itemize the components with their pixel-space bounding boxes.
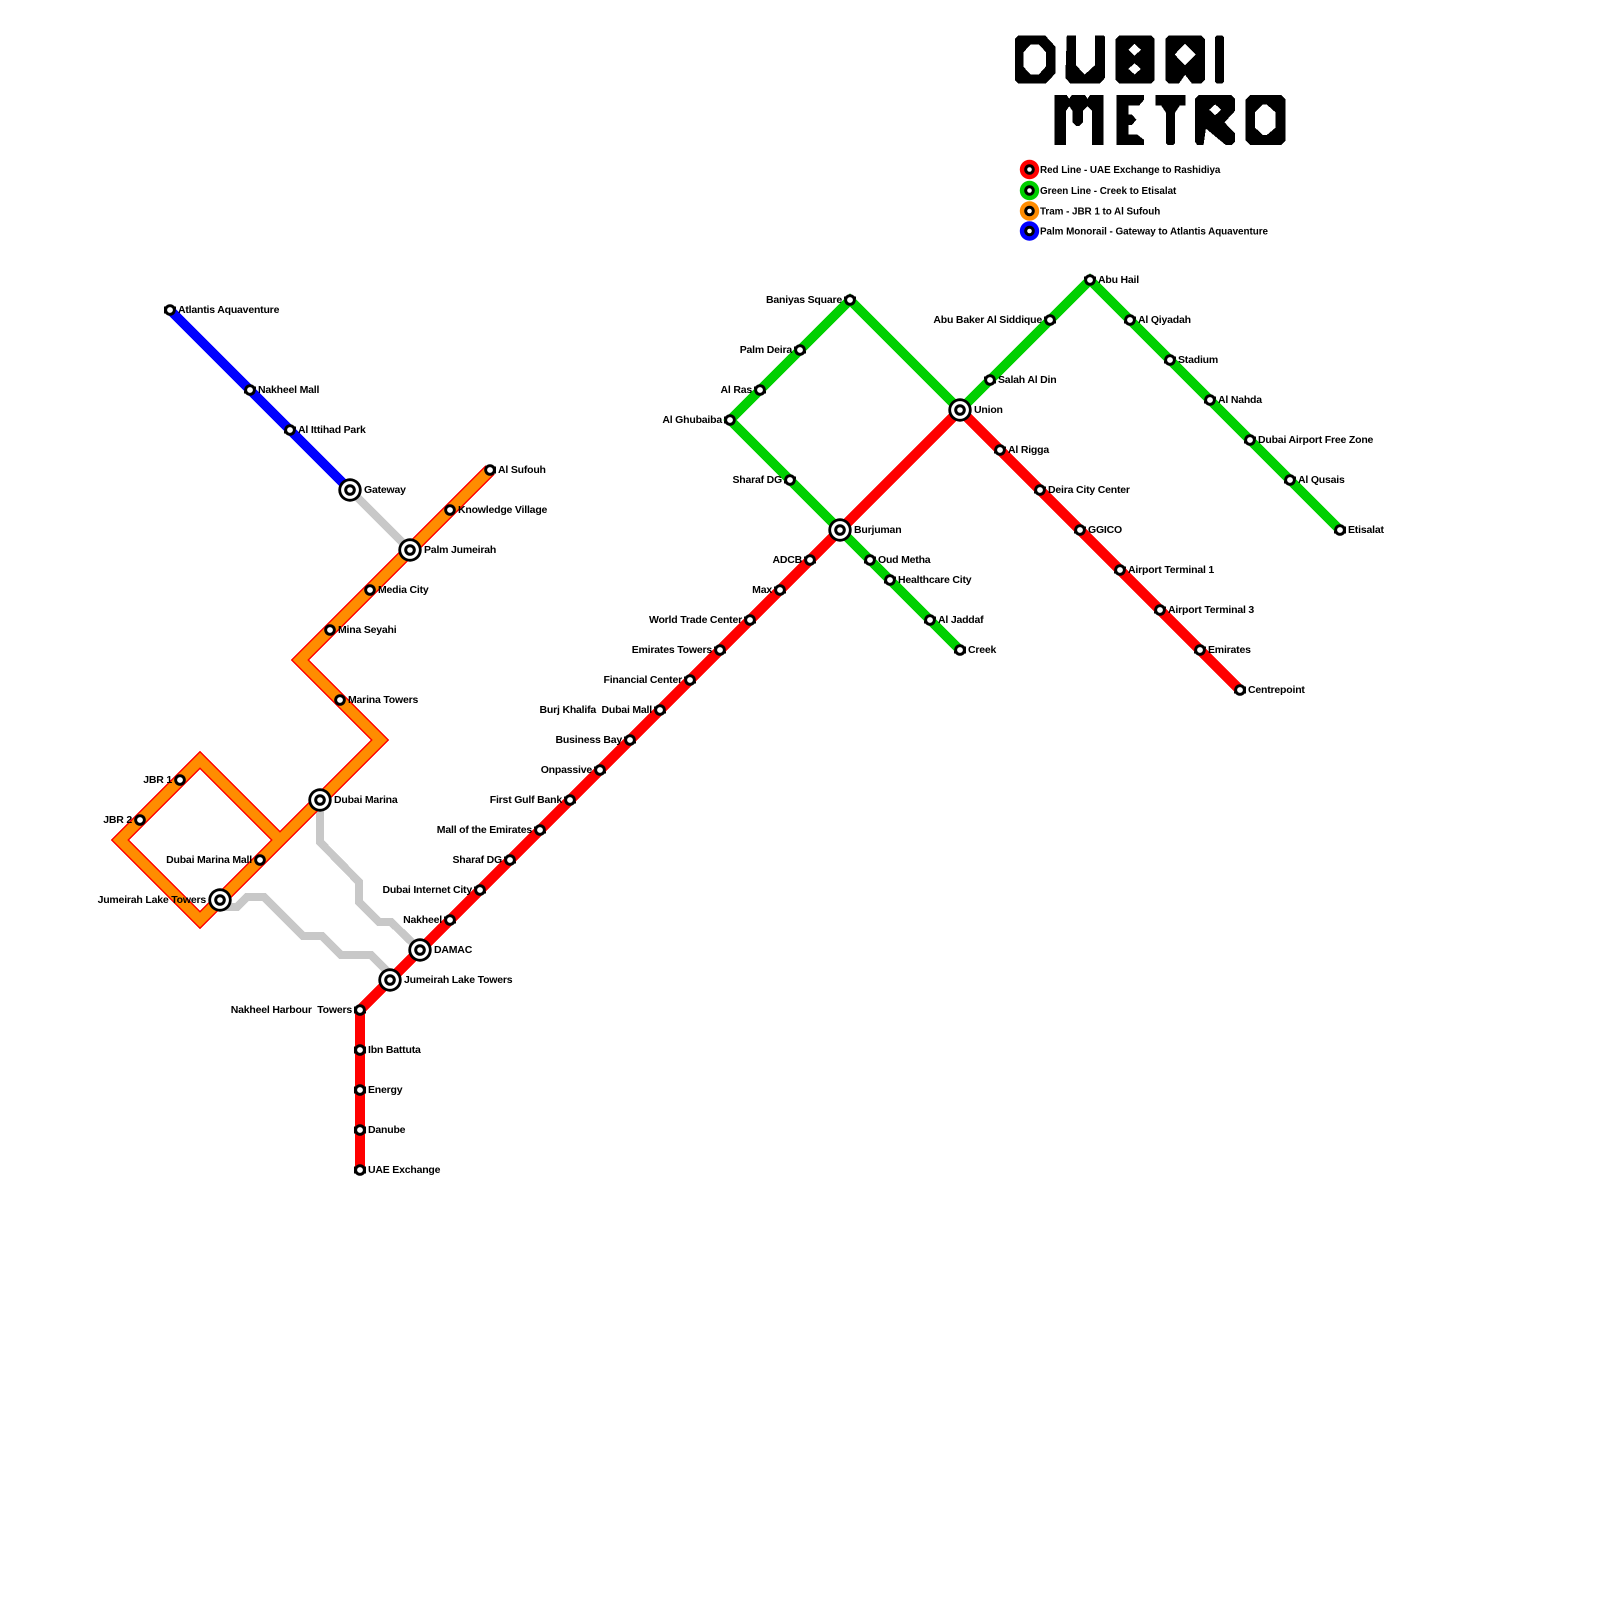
station GGICO <box>1074 524 1122 536</box>
svg-text:Al Nahda: Al Nahda <box>1218 394 1262 406</box>
station World Trade Center <box>649 614 756 626</box>
legend Tram <box>1020 201 1160 220</box>
wire <box>220 490 420 974</box>
title letter E <box>1116 95 1144 145</box>
svg-text:UAE Exchange: UAE Exchange <box>368 1164 441 1176</box>
svg-text:JBR 1: JBR 1 <box>143 774 172 786</box>
station Deira City Center <box>1034 484 1130 496</box>
title letter U <box>1065 36 1105 84</box>
svg-text:Baniyas Square: Baniyas Square <box>766 294 842 306</box>
station Abu Baker Al Siddique <box>933 314 1055 326</box>
svg-text:Airport Terminal 3: Airport Terminal 3 <box>1168 604 1254 616</box>
svg-text:Burj Khalifa Dubai Mall: Burj Khalifa Dubai Mall <box>540 704 653 716</box>
svg-text:Nakheel: Nakheel <box>403 914 442 926</box>
svg-text:Dubai Airport Free Zone: Dubai Airport Free Zone <box>1258 434 1374 446</box>
svg-text:Creek: Creek <box>968 644 997 656</box>
station Al Ras <box>721 384 766 396</box>
station Airport Terminal 3 <box>1154 604 1254 616</box>
svg-text:Ibn Battuta: Ibn Battuta <box>368 1044 421 1056</box>
station Mall of the Emirates <box>437 824 546 836</box>
svg-text:Dubai Internet City: Dubai Internet City <box>382 884 472 896</box>
station Gateway <box>338 478 406 501</box>
svg-text:DAMAC: DAMAC <box>434 944 473 956</box>
station Baniyas Square <box>766 294 856 306</box>
station Knowledge Village <box>444 504 547 516</box>
station Sharaf DG <box>452 854 515 866</box>
svg-text:Healthcare City: Healthcare City <box>898 574 972 586</box>
station Union <box>948 398 1002 421</box>
station Dubai Airport Free Zone <box>1244 434 1373 446</box>
title letter T <box>1155 95 1185 145</box>
svg-text:Energy: Energy <box>368 1084 403 1096</box>
connector Gateway-Palm Jumeirah <box>350 490 410 550</box>
station Al Rigga <box>994 444 1049 456</box>
station Marina Towers <box>334 694 418 706</box>
svg-text:Al Ghubaiba: Al Ghubaiba <box>662 414 722 426</box>
station Emirates <box>1194 644 1251 656</box>
svg-text:Financial Center: Financial Center <box>604 674 683 686</box>
station Nakheel Mall <box>244 384 319 396</box>
station Burj Khalifa Dubai Mall <box>540 704 666 716</box>
svg-text:Abu Hail: Abu Hail <box>1098 274 1139 286</box>
station Etisalat <box>1334 524 1384 536</box>
svg-text:Emirates Towers: Emirates Towers <box>632 644 713 656</box>
Tram line outline <box>120 470 490 920</box>
svg-text:Palm Jumeirah: Palm Jumeirah <box>424 544 496 556</box>
Red Line <box>360 410 1240 1170</box>
station Financial Center <box>604 674 696 686</box>
station Salah Al Din <box>984 374 1056 386</box>
station Dubai Internet City <box>382 884 485 896</box>
station Al Nahda <box>1204 394 1262 406</box>
station Creek <box>954 644 996 656</box>
Tram junction patch <box>271 831 289 849</box>
station Ibn Battuta <box>354 1044 421 1056</box>
station DAMAC <box>408 938 472 961</box>
svg-text:Danube: Danube <box>368 1124 406 1136</box>
station Media City <box>364 584 429 596</box>
svg-text:Emirates: Emirates <box>1208 644 1251 656</box>
station Abu Hail <box>1084 274 1139 286</box>
svg-text:Dubai Marina Mall: Dubai Marina Mall <box>166 854 252 866</box>
legend Green Line <box>1020 181 1177 200</box>
svg-text:Business Bay: Business Bay <box>556 734 623 746</box>
svg-text:Etisalat: Etisalat <box>1348 524 1384 536</box>
svg-text:Nakheel Mall: Nakheel Mall <box>258 384 319 396</box>
station Oud Metha <box>864 554 931 566</box>
svg-text:Media City: Media City <box>378 584 429 596</box>
station Sharaf DG <box>732 474 795 486</box>
svg-text:Sharaf DG: Sharaf DG <box>732 474 782 486</box>
svg-text:Jumeirah Lake Towers: Jumeirah Lake Towers <box>98 894 207 906</box>
svg-text:Dubai Marina: Dubai Marina <box>334 794 398 806</box>
svg-text:Nakheel Harbour Towers: Nakheel Harbour Towers <box>231 1004 353 1016</box>
svg-text:Gateway: Gateway <box>364 484 406 496</box>
title letter I <box>1215 36 1224 84</box>
station Palm Deira <box>740 344 806 356</box>
svg-text:Jumeirah Lake Towers: Jumeirah Lake Towers <box>404 974 513 986</box>
svg-text:Palm Monorail - Gateway to Atl: Palm Monorail - Gateway to Atlantis Aqua… <box>1040 226 1268 237</box>
station Energy <box>354 1084 403 1096</box>
station Business Bay <box>556 734 636 746</box>
title letter O <box>1246 95 1286 145</box>
station ticks <box>134 277 1346 1174</box>
legend Palm Monorail <box>1020 221 1269 240</box>
svg-text:Marina Towers: Marina Towers <box>348 694 419 706</box>
svg-text:Al Ras: Al Ras <box>721 384 753 396</box>
svg-text:Centrepoint: Centrepoint <box>1248 684 1305 696</box>
title letter R <box>1195 95 1235 145</box>
svg-text:Al Qusais: Al Qusais <box>1298 474 1345 486</box>
svg-text:Red Line - UAE Exchange to Ras: Red Line - UAE Exchange to Rashidiya <box>1040 165 1221 176</box>
station Stadium <box>1164 354 1218 366</box>
station UAE Exchange <box>354 1164 440 1176</box>
connector Jumeirah Lake Towers tram-red <box>220 897 390 974</box>
svg-text:World Trade Center: World Trade Center <box>649 614 742 626</box>
Palm Monorail line <box>170 310 350 490</box>
station Al Jaddaf <box>924 614 984 626</box>
station Al Ghubaiba <box>662 414 735 426</box>
svg-text:Max: Max <box>752 584 772 596</box>
svg-text:Green Line - Creek to Etisalat: Green Line - Creek to Etisalat <box>1040 186 1177 197</box>
station Al Sufouh <box>484 464 546 476</box>
station Danube <box>354 1124 405 1136</box>
station JBR 2 <box>103 814 146 826</box>
svg-text:Al Qiyadah: Al Qiyadah <box>1138 314 1191 326</box>
station Nakheel Harbour Towers <box>231 1004 366 1016</box>
svg-text:Salah Al Din: Salah Al Din <box>998 374 1056 386</box>
svg-text:Palm Deira: Palm Deira <box>740 344 793 356</box>
svg-text:First Gulf Bank: First Gulf Bank <box>490 794 563 806</box>
title letter M <box>1055 95 1104 145</box>
svg-text:Tram - JBR 1 to Al Sufouh: Tram - JBR 1 to Al Sufouh <box>1040 206 1160 217</box>
station Centrepoint <box>1234 684 1305 696</box>
title letter A <box>1165 36 1205 84</box>
svg-text:Union: Union <box>974 404 1003 416</box>
svg-text:Oud Metha: Oud Metha <box>878 554 931 566</box>
title letter B <box>1116 36 1155 84</box>
svg-text:Abu Baker Al Siddique: Abu Baker Al Siddique <box>933 314 1042 326</box>
Green Line <box>730 280 1340 650</box>
svg-text:Knowledge Village: Knowledge Village <box>458 504 548 516</box>
station JBR 1 <box>143 774 186 786</box>
station Al Qusais <box>1284 474 1345 486</box>
Tram line <box>120 470 490 920</box>
legend Red Line <box>1020 160 1221 179</box>
svg-text:Onpassive: Onpassive <box>541 764 593 776</box>
station Airport Terminal 1 <box>1114 564 1214 576</box>
station Jumeirah Lake Towers <box>98 888 232 911</box>
station Max <box>752 584 786 596</box>
svg-text:Sharaf DG: Sharaf DG <box>452 854 502 866</box>
station Burjuman <box>828 518 901 541</box>
station Healthcare City <box>884 574 972 586</box>
station Mina Seyahi <box>324 624 397 636</box>
station First Gulf Bank <box>490 794 576 806</box>
station Emirates Towers <box>632 644 726 656</box>
svg-text:Deira City Center: Deira City Center <box>1048 484 1130 496</box>
station ADCB <box>772 554 815 566</box>
station Al Qiyadah <box>1124 314 1191 326</box>
svg-text:Stadium: Stadium <box>1178 354 1218 366</box>
connector Dubai Marina-DAMAC <box>320 800 420 950</box>
station Atlantis Aquaventure <box>164 304 279 316</box>
svg-text:Al Sufouh: Al Sufouh <box>498 464 546 476</box>
svg-text:Mina Seyahi: Mina Seyahi <box>338 624 397 636</box>
station Dubai Marina Mall <box>166 854 266 866</box>
svg-text:Atlantis Aquaventure: Atlantis Aquaventure <box>178 304 280 316</box>
title letter D <box>1015 36 1055 84</box>
station Al Ittihad Park <box>284 424 366 436</box>
svg-text:GGICO: GGICO <box>1088 524 1122 536</box>
svg-text:Burjuman: Burjuman <box>854 524 901 536</box>
svg-text:Al Rigga: Al Rigga <box>1008 444 1049 456</box>
svg-text:Mall of the Emirates: Mall of the Emirates <box>437 824 533 836</box>
station Onpassive <box>541 764 606 776</box>
station Dubai Marina <box>308 788 398 811</box>
station Nakheel <box>403 914 456 926</box>
svg-text:Al Jaddaf: Al Jaddaf <box>938 614 984 626</box>
svg-text:Al Ittihad Park: Al Ittihad Park <box>298 424 366 436</box>
svg-text:JBR 2: JBR 2 <box>103 814 132 826</box>
svg-text:ADCB: ADCB <box>772 554 802 566</box>
station Jumeirah Lake Towers <box>378 968 512 991</box>
svg-text:Airport Terminal 1: Airport Terminal 1 <box>1128 564 1214 576</box>
station Palm Jumeirah <box>398 538 496 561</box>
